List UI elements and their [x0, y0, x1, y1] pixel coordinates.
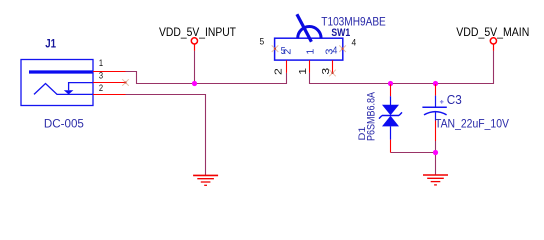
- junction node input: [192, 81, 197, 86]
- junction node D1: [388, 81, 393, 86]
- wire J1 pin2 to ground: [126, 95, 206, 176]
- svg-text:3: 3: [99, 71, 103, 81]
- svg-text:4: 4: [351, 38, 356, 48]
- no-connect X J1.3: [122, 79, 129, 86]
- junction node gnd2: [433, 150, 438, 155]
- pin J1.3: [93, 82, 125, 84]
- ground right: [423, 175, 448, 185]
- svg-text:1: 1: [298, 68, 309, 75]
- pin SW1.3 (bottom): [332, 60, 334, 73]
- ground left: [193, 175, 218, 185]
- pin SW1.2 (bottom): [286, 60, 288, 73]
- connector J1: [21, 60, 93, 106]
- svg-text:5: 5: [259, 36, 264, 46]
- svg-text:2: 2: [283, 48, 294, 54]
- power circle VDD_5V_MAIN: [490, 38, 496, 44]
- wire SW1 pin1 to main bus to VDD_5V_MAIN: [310, 51, 494, 84]
- power circle VDD_5V_INPUT: [191, 38, 197, 44]
- power stub VDD_5V_INPUT: [194, 44, 196, 51]
- power stub VDD_5V_MAIN: [493, 44, 495, 51]
- svg-text:TAN_22uF_10V: TAN_22uF_10V: [435, 116, 510, 130]
- pin J1.2: [93, 94, 126, 96]
- svg-text:C3: C3: [447, 93, 462, 107]
- wire J1 pin1 to input bus: [126, 72, 287, 84]
- pin SW1.1 (bottom): [309, 60, 311, 73]
- diode D1: [379, 84, 402, 152]
- pin J1.1: [93, 71, 126, 73]
- wire C3 bottom to ground: [435, 141, 437, 175]
- svg-text:VDD_5V_MAIN: VDD_5V_MAIN: [456, 25, 529, 39]
- capacitor C3: [422, 84, 446, 141]
- svg-text:2: 2: [99, 83, 103, 93]
- switch SW1: [275, 14, 343, 60]
- svg-text:2: 2: [274, 68, 285, 75]
- svg-text:DC-005: DC-005: [44, 117, 84, 131]
- no-connect X SW1.5: [272, 45, 279, 52]
- wire SW1 pin2 drop: [286, 73, 288, 84]
- wire VDD_5V_INPUT drop: [194, 51, 196, 84]
- svg-text:1: 1: [99, 58, 103, 68]
- no-connect X SW1.4: [339, 45, 346, 52]
- junction node C3: [433, 81, 438, 86]
- wire D1 bottom to junction: [391, 152, 436, 154]
- svg-text:3: 3: [324, 48, 335, 54]
- svg-text:P6SMB6.8A: P6SMB6.8A: [366, 91, 378, 141]
- svg-text:1: 1: [306, 48, 317, 54]
- no-connect X SW1.3: [329, 70, 336, 77]
- svg-text:SW1: SW1: [331, 27, 350, 39]
- svg-text:J1: J1: [45, 38, 56, 51]
- svg-text:VDD_5V_INPUT: VDD_5V_INPUT: [159, 25, 236, 39]
